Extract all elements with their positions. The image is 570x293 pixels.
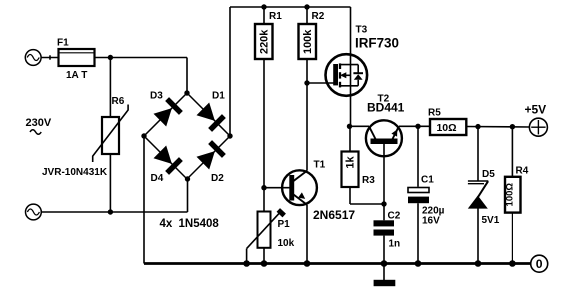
svg-text:10k: 10k	[278, 238, 295, 249]
node C1 top	[415, 124, 420, 129]
capacitor C2	[374, 204, 395, 264]
node T2 collector junction	[347, 124, 352, 129]
svg-text:D4: D4	[151, 173, 164, 184]
node R4 bottom	[509, 260, 516, 267]
wire down to bridge top	[186, 58, 188, 94]
svg-text:BD441: BD441	[367, 101, 405, 115]
node D5 bottom	[475, 260, 482, 267]
bridge rectifier edges	[144, 93, 230, 179]
svg-text:R4: R4	[516, 166, 529, 177]
node bridge left (DC minus)	[141, 133, 146, 138]
wire fuse to corner	[95, 57, 188, 59]
svg-text:D2: D2	[211, 173, 224, 184]
tilde symbol	[30, 130, 41, 135]
svg-text:+5V: +5V	[525, 103, 547, 117]
svg-text:F1: F1	[57, 38, 69, 49]
wire AC bottom to bridge	[41, 211, 187, 213]
svg-text:16V: 16V	[422, 216, 440, 227]
node junction bottom AC	[108, 209, 113, 214]
top rail wire	[230, 6, 351, 8]
fuse F1	[59, 49, 95, 66]
svg-text:0: 0	[536, 257, 543, 271]
wire gate junction down to T1 collector	[306, 83, 308, 171]
transistor T1	[264, 170, 317, 205]
svg-text:1A T: 1A T	[66, 70, 87, 81]
node gate junction	[304, 80, 309, 85]
resistor R2	[299, 7, 317, 83]
terminal +5V	[529, 118, 547, 136]
transistor T2	[350, 120, 402, 204]
node dot R2 top	[304, 4, 309, 9]
connector tick	[49, 55, 51, 59]
svg-text:P1: P1	[278, 219, 291, 230]
node bridge top (AC)	[184, 90, 189, 95]
wire up to bridge bottom node	[187, 179, 189, 212]
terminal 0	[531, 255, 548, 272]
wire bridge right node up to top rail	[229, 7, 231, 136]
ground rail (thick)	[144, 262, 531, 265]
wire AC top to fuse	[41, 57, 58, 59]
diode D2	[197, 142, 224, 169]
diode D1	[197, 103, 224, 130]
svg-text:100Ω: 100Ω	[505, 183, 516, 207]
ground	[374, 264, 396, 287]
wire to varistor	[109, 58, 111, 118]
mosfet T3	[326, 7, 368, 126]
svg-text:D5: D5	[482, 169, 495, 180]
svg-text:230V: 230V	[26, 117, 52, 129]
svg-text:JVR-10N431K: JVR-10N431K	[42, 167, 108, 178]
svg-text:R5: R5	[428, 108, 441, 119]
node dot R1 top	[261, 4, 266, 9]
diode D4	[154, 146, 181, 173]
svg-text:R3: R3	[362, 175, 375, 186]
node R3/T2 base junction	[381, 201, 386, 206]
node bridge right (DC plus)	[227, 133, 232, 138]
svg-text:4x: 4x	[160, 218, 173, 230]
node T1 emitter rail	[304, 260, 311, 267]
svg-text:R2: R2	[312, 11, 325, 22]
svg-text:C1: C1	[421, 175, 434, 186]
capacitor C1	[408, 126, 429, 263]
node P1 wiper rail	[243, 260, 250, 267]
svg-text:D3: D3	[150, 91, 163, 102]
svg-text:T3: T3	[356, 25, 368, 36]
wire T1 emitter down to rail	[306, 205, 308, 264]
AC source terminal bottom	[26, 204, 42, 220]
svg-text:T1: T1	[314, 160, 326, 171]
svg-text:C2: C2	[388, 211, 401, 222]
svg-text:D1: D1	[212, 91, 225, 102]
resistor R4	[505, 127, 521, 264]
svg-text:1k: 1k	[345, 156, 357, 169]
svg-text:IRF730: IRF730	[355, 36, 399, 51]
node junction top AC	[108, 55, 113, 60]
svg-text:220k: 220k	[258, 29, 270, 54]
svg-text:R1: R1	[269, 11, 282, 22]
resistor R5	[430, 119, 529, 135]
svg-text:5V1: 5V1	[482, 215, 500, 226]
svg-text:10Ω: 10Ω	[436, 122, 456, 134]
svg-text:1n: 1n	[389, 239, 401, 250]
node D5 top	[475, 124, 480, 129]
svg-text:1N5408: 1N5408	[179, 218, 220, 230]
resistor R1	[255, 7, 273, 188]
resistor R3	[342, 126, 385, 204]
wire gate junction to T3 gate	[307, 82, 334, 84]
wire bridge left node down to ground rail	[143, 136, 145, 264]
svg-text:2N6517: 2N6517	[313, 208, 355, 222]
node C1 rail	[415, 260, 422, 267]
node R4 top	[510, 124, 515, 129]
node C2 rail	[381, 260, 388, 267]
zener D5	[468, 127, 489, 264]
diode D3	[154, 99, 181, 126]
AC source terminal top	[25, 50, 41, 66]
varistor R6	[93, 105, 128, 163]
potentiometer P1	[247, 188, 285, 264]
node bridge bottom (AC)	[185, 176, 190, 181]
node T1 base junction	[261, 185, 266, 190]
wire varistor to bottom AC wire	[109, 154, 111, 212]
svg-text:R6: R6	[112, 96, 125, 107]
svg-text:100k: 100k	[302, 29, 314, 54]
node P1 bottom rail	[261, 260, 268, 267]
+5V rail wire from T2 emitter	[399, 125, 430, 127]
